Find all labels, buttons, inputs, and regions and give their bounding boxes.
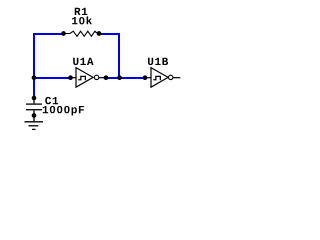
value label R1 [75,8,88,15]
hysteresis symbol U1B [153,76,160,80]
wire: U1A output to U1B input [106,77,145,79]
node: C1 bottom pin dot [32,113,37,118]
inverter U1A (Schmitt trigger) [71,68,107,88]
label U1B [148,58,168,65]
hysteresis symbol U1A [78,76,85,80]
wire: left vertical from C1 top up to top-left corner and right to R1 left pin [34,34,64,98]
node: U1A input pin dot [68,75,73,80]
value label 10k [72,16,92,24]
label U1A [73,58,93,65]
node: junction at left vertical and U1A input wire [32,75,37,80]
label C1 [45,97,58,104]
node: U1B input pin dot [143,75,148,80]
inverter U1B (Schmitt trigger) [145,68,180,88]
wire: R1 right pin to top-right corner down to U1A/U1B net [99,34,119,78]
capacitor C1 [26,98,42,116]
resistor R1 [64,31,100,36]
node: junction of R1 branch with U1A-U1B wire [117,75,122,80]
node: C1 top pin dot [32,96,37,101]
value label 1000pF [43,106,84,116]
ground [25,116,44,130]
node: R1 right pin dot [97,31,102,36]
wire: left junction to U1A input [34,77,71,79]
node: R1 left pin dot [61,31,66,36]
node: U1A output pin dot [104,75,109,80]
